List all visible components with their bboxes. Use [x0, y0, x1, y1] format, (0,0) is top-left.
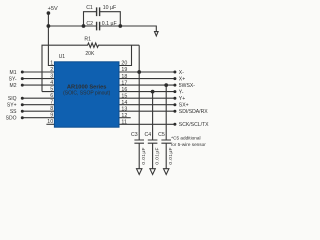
svg-text:0.01µF: 0.01µF: [154, 147, 160, 164]
svg-text:SIQ: SIQ: [8, 96, 17, 102]
svg-text:8: 8: [50, 106, 53, 112]
svg-text:X-: X-: [179, 70, 184, 76]
svg-text:SY+: SY+: [7, 103, 17, 109]
svg-text:12: 12: [121, 113, 127, 119]
svg-text:13: 13: [121, 106, 127, 112]
svg-text:2: 2: [50, 67, 53, 73]
svg-text:SDO: SDO: [6, 116, 17, 122]
svg-text:10 µF: 10 µF: [103, 5, 116, 11]
svg-text:18: 18: [121, 74, 127, 80]
svg-text:20: 20: [121, 61, 127, 67]
svg-text:19: 19: [121, 67, 127, 73]
svg-text:14: 14: [121, 100, 127, 106]
svg-text:3: 3: [50, 73, 53, 79]
svg-text:15: 15: [121, 93, 127, 99]
svg-text:0.1 µF: 0.1 µF: [102, 21, 117, 27]
svg-text:X+: X+: [179, 76, 185, 82]
svg-text:R1: R1: [84, 36, 91, 42]
svg-text:SS: SS: [10, 109, 17, 115]
svg-text:0.01µF: 0.01µF: [168, 147, 174, 164]
svg-text:C5: C5: [158, 132, 165, 138]
svg-text:7: 7: [50, 100, 53, 106]
svg-text:M2: M2: [10, 83, 17, 89]
svg-text:SDI/SDA/RX: SDI/SDA/RX: [179, 109, 208, 115]
svg-text:(SOIC, SSOP pinout): (SOIC, SSOP pinout): [63, 90, 110, 96]
svg-text:Y-: Y-: [179, 89, 184, 95]
svg-text:U1: U1: [59, 54, 66, 60]
svg-text:1: 1: [50, 60, 53, 66]
svg-text:Y+: Y+: [179, 96, 185, 102]
svg-text:+5V: +5V: [48, 6, 58, 12]
svg-text:C3: C3: [131, 132, 138, 138]
svg-text:5: 5: [50, 86, 53, 92]
svg-text:17: 17: [121, 80, 127, 86]
svg-text:9: 9: [50, 113, 53, 119]
svg-text:SY-: SY-: [9, 76, 17, 82]
svg-text:4: 4: [50, 80, 53, 86]
svg-text:16: 16: [121, 87, 127, 93]
svg-text:6: 6: [50, 93, 53, 99]
svg-text:SX+: SX+: [179, 103, 189, 109]
svg-text:C4: C4: [145, 132, 152, 138]
svg-text:C1: C1: [86, 5, 93, 11]
svg-text:0.01µF: 0.01µF: [141, 147, 147, 164]
svg-text:C2: C2: [86, 21, 93, 27]
svg-text:5WSX-: 5WSX-: [179, 83, 195, 89]
svg-text:for 5-wire sensor: for 5-wire sensor: [171, 142, 206, 147]
svg-text:*C5 additional: *C5 additional: [171, 136, 200, 141]
svg-text:10: 10: [47, 119, 53, 125]
svg-text:SCK/SCL/TX: SCK/SCL/TX: [179, 122, 209, 128]
svg-text:20K: 20K: [85, 51, 95, 57]
svg-text:M1: M1: [10, 70, 17, 76]
svg-text:11: 11: [121, 120, 127, 126]
